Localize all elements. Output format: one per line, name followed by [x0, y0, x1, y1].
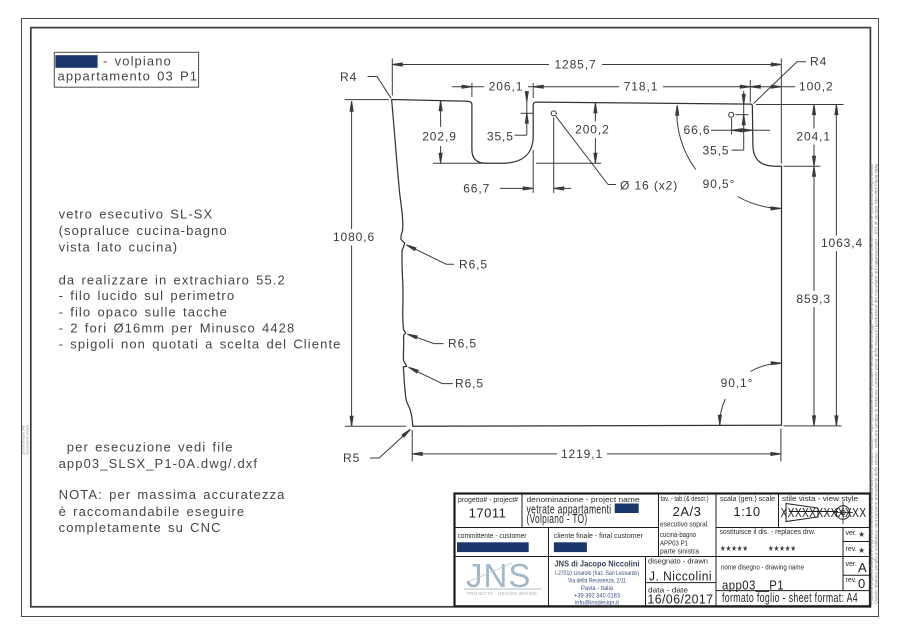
svg-text:- 2 fori Ø16mm per Minusco 442: - 2 fori Ø16mm per Minusco 4428: [59, 320, 296, 335]
svg-text:R6,5: R6,5: [459, 257, 488, 271]
svg-text:per esecuzione vedi file: per esecuzione vedi file: [67, 440, 234, 455]
svg-text:0: 0: [858, 576, 866, 591]
svg-text:progetto# - project#: progetto# - project#: [458, 497, 518, 504]
svg-text:66,7: 66,7: [463, 181, 490, 195]
svg-text:35,5: 35,5: [487, 129, 514, 143]
svg-text:stile vista - view style: stile vista - view style: [782, 496, 858, 503]
svg-text:R5: R5: [343, 451, 360, 465]
leader R4 right: [754, 62, 807, 104]
svg-text:APP03 P1: APP03 P1: [660, 541, 688, 548]
grid verticals: [521, 494, 523, 528]
dim 100.2: [750, 86, 795, 88]
svg-text:★★★★★: ★★★★★: [720, 544, 748, 553]
dim 859.3: [813, 166, 815, 291]
svg-text:info@jnsdesign.it: info@jnsdesign.it: [575, 599, 619, 606]
dim 1080.6: [351, 101, 353, 229]
leader Ø16: [556, 116, 608, 184]
svg-text:206,1: 206,1: [489, 80, 524, 94]
svg-text:1063,4: 1063,4: [821, 236, 863, 250]
svg-text:esecutivo sopral.: esecutivo sopral.: [660, 522, 709, 529]
dim 206.1: [452, 86, 484, 88]
svg-text:35,5: 35,5: [703, 143, 730, 157]
svg-text:★: ★: [858, 546, 865, 555]
glass panel outline: [392, 100, 782, 427]
address cell: [555, 559, 640, 607]
svg-text:XXXXXXXXXXXX: XXXXXXXXXXXX: [781, 505, 867, 520]
dim 1285.7 extension lines: [391, 59, 393, 96]
svg-text:committente - customer: committente - customer: [458, 533, 528, 540]
svg-text:★★★★★: ★★★★★: [768, 544, 796, 553]
svg-text:17011: 17011: [469, 506, 507, 521]
redacted name box: [615, 504, 639, 514]
svg-text:rev.: rev.: [846, 546, 857, 553]
svg-text:- volpiano: - volpiano: [103, 53, 172, 68]
svg-text:ver.: ver.: [846, 561, 857, 568]
svg-text:66,6: 66,6: [684, 123, 711, 137]
svg-text:R6,5: R6,5: [448, 337, 477, 351]
svg-text:formato foglio - sheet format:: formato foglio - sheet format: A4: [722, 590, 858, 605]
svg-text:204,1: 204,1: [796, 129, 831, 143]
svg-text:NOTA: per massima accuratezza: NOTA: per massima accuratezza: [59, 487, 286, 502]
svg-text:appartamento 03 P1: appartamento 03 P1: [58, 69, 199, 84]
svg-text:202,9: 202,9: [422, 129, 457, 143]
legend color swatch: [55, 55, 97, 68]
dim 202.9: [440, 101, 442, 127]
svg-text:90,5°: 90,5°: [703, 177, 736, 191]
svg-text:vista lato cucina): vista lato cucina): [59, 239, 179, 254]
svg-text:vetro esecutivo SL-SX: vetro esecutivo SL-SX: [59, 207, 214, 222]
dim 35.5 right: [732, 149, 744, 151]
svg-text:R4: R4: [340, 70, 357, 84]
leader R6.5 #1: [410, 246, 455, 264]
svg-text:★: ★: [858, 530, 865, 539]
dim 35.5 left: [515, 134, 527, 136]
svg-text:1219,1: 1219,1: [561, 447, 603, 461]
grid horizontals: [455, 527, 659, 529]
svg-text:R4: R4: [810, 55, 827, 69]
angle 90.1 arc: [720, 399, 726, 425]
svg-text:cliente finale - final custome: cliente finale - final customer: [554, 533, 644, 540]
hole 2 (Ø16): [729, 112, 734, 117]
svg-text:- spigoli non quotati a scelta: - spigoli non quotati a scelta del Clien…: [59, 337, 342, 352]
leader R4 left: [368, 77, 392, 99]
svg-text:riproduzione vietata: riproduzione vietata: [25, 425, 29, 455]
svg-text:Via della Resistenza, 2/11: Via della Resistenza, 2/11: [568, 578, 626, 585]
dim 1285.7: [392, 64, 549, 66]
svg-text:(Volpiano - TO): (Volpiano - TO): [527, 511, 588, 526]
svg-text:cucina-bagno: cucina-bagno: [660, 532, 696, 539]
svg-text:- filo lucido sul perimetro: - filo lucido sul perimetro: [59, 288, 236, 303]
svg-text:ver.: ver.: [846, 530, 857, 537]
svg-text:1:10: 1:10: [733, 504, 760, 519]
svg-text:1080,6: 1080,6: [333, 230, 375, 244]
leader R6.5 #2: [411, 335, 444, 343]
dim 718.1: [533, 86, 619, 88]
svg-text:2A/3: 2A/3: [673, 504, 702, 519]
svg-text:R6,5: R6,5: [455, 377, 484, 391]
svg-text:200,2: 200,2: [575, 122, 610, 136]
svg-text:completamente su CNC: completamente su CNC: [59, 520, 222, 535]
svg-text:J. Niccolini: J. Niccolini: [649, 569, 712, 584]
svg-text:I-27010 Linarolo (fraz. San Le: I-27010 Linarolo (fraz. San Leonardo): [555, 570, 639, 577]
svg-text:rev.: rev.: [846, 577, 857, 584]
svg-text:tav. - tab.(& descr.): tav. - tab.(& descr.): [661, 496, 709, 503]
dim 66.6: [711, 129, 770, 131]
svg-text:scala (gen.) scale: scala (gen.) scale: [720, 496, 775, 503]
svg-text:+39 392 340 0183: +39 392 340 0183: [574, 592, 620, 599]
svg-text:Pavia - Italia: Pavia - Italia: [581, 585, 613, 592]
svg-text:JNS: JNS: [466, 557, 531, 594]
dim 66.7: [500, 187, 524, 189]
svg-text:disegnato - drawn: disegnato - drawn: [648, 559, 708, 566]
svg-text:Ø 16 (x2): Ø 16 (x2): [620, 178, 678, 192]
redacted customer box: [457, 542, 529, 552]
leader R5: [370, 431, 409, 458]
svg-text:100,2: 100,2: [799, 80, 834, 94]
svg-text:A: A: [858, 560, 867, 575]
hole 1 (Ø16): [551, 111, 556, 116]
dim 1219.1: [411, 430, 413, 462]
dim 1063.4: [835, 105, 837, 236]
svg-text:parte sinistra: parte sinistra: [660, 548, 699, 555]
svg-text:1285,7: 1285,7: [554, 57, 596, 71]
svg-text:JNS di Jacopo Niccolini: JNS di Jacopo Niccolini: [555, 559, 640, 569]
svg-text:PROJECTS · DESIGN 360/360: PROJECTS · DESIGN 360/360: [467, 591, 537, 596]
legend box: [54, 52, 198, 87]
svg-text:90,1°: 90,1°: [721, 376, 754, 390]
svg-text:(sopraluce cucina-bagno: (sopraluce cucina-bagno: [59, 223, 228, 238]
svg-text:da realizzare in extrachiaro 5: da realizzare in extrachiaro 55.2: [59, 273, 286, 288]
svg-text:16/06/2017: 16/06/2017: [648, 592, 714, 607]
svg-text:è raccomandabile eseguire: è raccomandabile eseguire: [59, 504, 246, 519]
svg-text:- filo opaco sulle tacche: - filo opaco sulle tacche: [59, 305, 228, 320]
svg-text:sostituisce il dis. - replaces: sostituisce il dis. - replaces drw.: [720, 529, 816, 536]
title block frame: [455, 494, 871, 607]
svg-text:859,3: 859,3: [796, 292, 831, 306]
svg-text:nome disegno - drawing name: nome disegno - drawing name: [721, 565, 804, 572]
angle 90.5 arc: [677, 107, 696, 170]
svg-text:app03_SLSX_P1-0A.dwg/.dxf: app03_SLSX_P1-0A.dwg/.dxf: [59, 456, 259, 471]
svg-text:Questo disegno annulla e sosti: Questo disegno annulla e sostituisce ogn…: [874, 163, 879, 604]
redacted final customer box: [554, 542, 587, 552]
dim 204.1: [813, 105, 815, 129]
dim 200.2: [594, 103, 596, 122]
svg-text:718,1: 718,1: [624, 80, 659, 94]
leader R6.5 #3: [412, 369, 453, 384]
